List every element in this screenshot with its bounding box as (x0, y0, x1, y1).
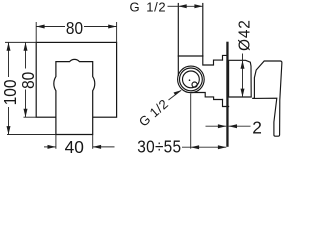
front top dim 80 line (36, 26, 65, 28)
side view lever blade (252, 61, 282, 136)
side dim 30-55 shaft and leader (182, 146, 226, 148)
side view circle 3 (183, 71, 200, 88)
arrow 40 left (48, 145, 56, 149)
arrow top80 left (36, 25, 44, 29)
front dim 100 line (8, 42, 10, 77)
side view cartridge steps bottom (191, 93, 223, 100)
side view cartridge steps top (203, 56, 223, 65)
svg-text:Ø42: Ø42 (237, 19, 254, 51)
side dim 2 shafts (206, 125, 227, 127)
side view handle knob (229, 60, 252, 97)
svg-text:2: 2 (252, 117, 262, 137)
arrowheads (7, 4, 245, 149)
side view body circle outer (178, 66, 205, 93)
arrow 3055 right (218, 145, 226, 149)
side view circle 2 (180, 68, 203, 91)
side view wall plate (226, 42, 228, 147)
arrow 100 up (7, 42, 11, 50)
side G1/2 top leader (168, 5, 179, 7)
dimension graphics (5, 6, 251, 149)
side view small circle (192, 82, 197, 87)
arrow dim2 left (218, 124, 226, 128)
arrow 80 down (24, 109, 28, 117)
front dim 80 line vertical (25, 42, 27, 68)
svg-text:100: 100 (1, 80, 20, 106)
side G1/2 top dim shaft (178, 5, 203, 7)
side view top port G1/2 right edge (202, 4, 204, 57)
svg-text:80: 80 (19, 72, 38, 89)
arrow dim2 right (229, 124, 237, 128)
side dia42 dim line (242, 54, 244, 98)
arrow G12top left (178, 4, 186, 8)
arrow dia42 up (241, 60, 245, 68)
side view escutcheon flange top corner (223, 55, 227, 60)
side dim 30-55 ext line (190, 94, 192, 149)
side view body shoulder line (178, 55, 203, 57)
front left ext mid (80) (24, 116, 37, 118)
side view top port G1/2 left edge (177, 4, 179, 76)
svg-text:80: 80 (66, 19, 83, 38)
front dim 100 bottom ext (7, 134, 56, 136)
side view center dot (189, 79, 191, 81)
side view escutcheon flange bottom corner (223, 100, 229, 107)
svg-text:1/2: 1/2 (146, 0, 166, 15)
front left ext top (5, 41, 36, 43)
front view wall plate (36, 42, 116, 117)
arrow 40 right (93, 145, 101, 149)
arrow 80 up (24, 42, 28, 50)
front view handle (54, 59, 95, 134)
diagonal G1/2 leader (169, 90, 182, 100)
svg-text:G: G (130, 0, 141, 15)
svg-text:30÷55: 30÷55 (137, 138, 181, 156)
arrow 100 down (7, 126, 11, 134)
arrow dia42 down (241, 89, 245, 97)
svg-text:40: 40 (65, 137, 84, 156)
front dim 40 ext lines (55, 135, 57, 149)
arrow diagonal leader (174, 90, 182, 95)
front top dim 80 ext lines (35, 22, 37, 42)
arrow 3055 left (191, 145, 199, 149)
front dim 40 tails (44, 146, 56, 148)
arrow G12top right (194, 4, 202, 8)
arrow top80 right (108, 25, 116, 29)
